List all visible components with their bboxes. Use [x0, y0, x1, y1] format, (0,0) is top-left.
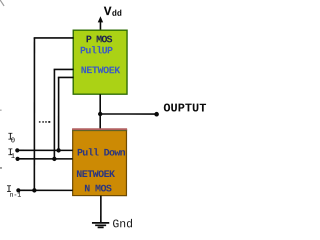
svg-text:Pull Down: Pull Down: [77, 147, 126, 159]
svg-text:OUPTUT: OUPTUT: [163, 101, 206, 115]
wire to ground: [100, 196, 102, 223]
svg-text:n-1: n-1: [10, 192, 22, 200]
box U1 P-MOS pull-up network: [73, 30, 127, 94]
wire output: [100, 113, 156, 115]
Vdd arrowhead: [98, 16, 103, 22]
node In-1 start: [16, 188, 20, 192]
wire vertical riser 2: [53, 69, 55, 158]
svg-text:N MOS: N MOS: [84, 184, 112, 195]
wire Vdd stem: [99, 21, 101, 31]
edge speck 2: [0, 109, 2, 110]
node I1 junction: [52, 157, 56, 161]
wire vertical riser 3: [58, 77, 60, 150]
svg-text:dd: dd: [112, 9, 122, 19]
node I1 start: [15, 157, 19, 161]
svg-text:P MOS: P MOS: [86, 35, 113, 46]
wire riser2 to pull-up: [54, 68, 74, 70]
wire input I1 row: [18, 158, 73, 160]
box U2 top edge highlight: [72, 128, 127, 130]
svg-text:NETWOEK: NETWOEK: [81, 66, 121, 77]
svg-text:V: V: [104, 4, 112, 19]
svg-text:NETWOEK: NETWOEK: [76, 170, 115, 181]
node output junction: [98, 112, 102, 116]
svg-text:0: 0: [11, 137, 15, 145]
corner artifact: [0, 0, 4, 6]
ground: [92, 223, 109, 228]
svg-text:Gnd: Gnd: [112, 218, 133, 231]
box U2 N-MOS pull-down network: [73, 130, 127, 196]
wire riser3 to pull-up: [58, 76, 74, 78]
svg-text:1: 1: [11, 153, 15, 161]
box U2 top inner dark line: [72, 130, 127, 132]
wire between networks: [99, 94, 101, 129]
svg-text:PullUP: PullUP: [80, 45, 113, 57]
wire vertical riser 1: [33, 38, 35, 190]
edge speck: [0, 167, 2, 169]
node I0 junction: [56, 148, 60, 152]
wire input I0 row: [17, 149, 72, 151]
node output end: [154, 112, 159, 117]
wire riser1 to pull-up: [34, 37, 74, 39]
ellipsis dots: [39, 121, 41, 123]
node I0 start: [15, 148, 19, 152]
wire input In-1 row: [18, 189, 72, 191]
node In-1 junction: [32, 188, 36, 192]
